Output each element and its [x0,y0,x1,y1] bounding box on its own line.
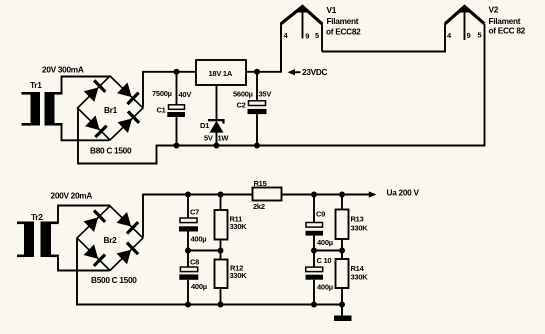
diode Br2 bottom-left [83,244,106,267]
wire R12 bottom lead [220,288,222,305]
capacitor C10 [306,267,324,280]
node C2 bottom [254,143,260,149]
wire link right pair [314,250,342,252]
wire Tr2 secondary top to Br2 AC1 [58,206,110,224]
wire Br2 DC- to ground rail [77,239,343,305]
node R11 top [218,192,224,198]
wire C2 bottom lead [256,114,258,145]
diode Br1 bottom-right [117,110,140,133]
svg-text:R13: R13 [351,215,364,224]
svg-text:Br1: Br1 [104,105,118,115]
tube V2 filament connector [445,5,485,24]
wire C8 bottom lead [187,280,189,305]
resistor R13 [336,210,349,240]
svg-text:9: 9 [305,32,309,41]
svg-text:Filament: Filament [327,16,359,26]
wire Br1 DC- return rail [78,24,485,164]
wire C8 top lead [187,251,189,268]
wire Tr1 secondary bottom to Br1 AC2 [62,123,110,140]
svg-text:of ECC 82: of ECC 82 [489,26,526,36]
node R13 top [339,192,345,198]
node link left R [218,248,224,254]
wire Br1 DC+ to regulator input [143,72,196,107]
diode Br2 top-right [116,212,139,235]
arrow Ua output [369,191,377,197]
wire R15 to output arrow [282,194,370,196]
svg-text:9: 9 [467,31,471,40]
svg-text:C7: C7 [190,207,199,216]
capacitor C8 [179,267,198,280]
wire V1 pin 5 lead [321,23,323,52]
svg-text:330K: 330K [230,222,248,231]
svg-text:400µ: 400µ [317,238,333,247]
node link right C [311,248,317,254]
capacitor C1 [167,105,185,117]
wire V1 pin 4 lead [280,23,282,72]
svg-text:D1: D1 [200,121,209,130]
wire C9 top lead [313,195,315,223]
svg-text:330K: 330K [351,273,369,282]
svg-text:Ua 200 V: Ua 200 V [387,188,420,198]
node link left C [185,248,191,254]
resistor R14 [336,259,349,288]
wire C9 bottom lead [313,236,315,251]
wire R13 top lead [341,195,343,210]
node link right R [339,248,345,254]
node C2 top [254,69,260,75]
node R12 bottom [218,302,224,308]
wire Tr1 secondary top to Br1 AC1 [62,77,111,95]
svg-text:1W: 1W [218,133,230,142]
svg-text:Tr2: Tr2 [31,212,43,222]
wire regulator output to V1 pin 4 [246,24,281,72]
transformer Tr1 [22,92,63,126]
tube V1 filament connector [281,5,322,24]
resistor R11 [215,210,228,240]
svg-text:C8: C8 [190,258,199,267]
svg-text:20V 300mA: 20V 300mA [42,65,84,75]
svg-text:400µ: 400µ [191,235,207,244]
capacitor C7 [179,218,198,232]
regulator U1 18V 1A [196,60,246,85]
svg-text:35V: 35V [259,90,272,99]
svg-text:330K: 330K [230,271,248,280]
wire R14 bottom lead [341,288,343,305]
svg-text:2k2: 2k2 [253,202,265,211]
wire R11 bottom lead [220,240,222,251]
wire C10 bottom lead [313,280,315,305]
node C7 top [185,192,191,198]
svg-text:C9: C9 [316,209,325,218]
wire R12 top lead [220,251,222,260]
svg-text:C1: C1 [157,106,166,115]
wire D1 anode lead [216,132,218,146]
svg-text:5: 5 [478,31,482,40]
diode Br2 bottom-right [116,242,139,265]
wire R11 top lead [220,195,222,211]
zener diode D1 [208,119,225,133]
bridge rectifier Br1 [78,76,144,140]
svg-text:C2: C2 [237,100,246,109]
wire V2 pin 9 [464,7,466,40]
svg-text:R15: R15 [254,179,267,188]
node C10 bottom [311,302,317,308]
capacitor C2 [248,101,267,114]
svg-text:40V: 40V [179,90,192,99]
svg-text:18V 1A: 18V 1A [209,69,233,78]
diode Br1 top-left [83,79,106,102]
svg-text:B500 C 1500: B500 C 1500 [91,275,137,285]
diode Br1 top-right [117,82,140,105]
transformer Tr2 [17,222,59,258]
node C9 top [311,192,317,198]
node C1 bottom [174,143,180,149]
bridge rectifier Br2 [77,206,143,271]
svg-text:400µ: 400µ [317,283,333,292]
wire C1 top lead [176,72,178,105]
svg-text:330K: 330K [351,224,369,233]
svg-text:5V: 5V [204,133,213,142]
svg-text:Filament: Filament [489,16,521,26]
wire ground lead [341,305,343,316]
wire link left pair [188,250,221,252]
svg-text:5: 5 [315,31,319,40]
svg-text:Tr1: Tr1 [30,80,42,90]
svg-text:B80 C 1500: B80 C 1500 [90,146,132,156]
wire V1 pin 9 [302,7,304,39]
svg-text:Br2: Br2 [104,235,118,245]
wire R14 top lead [341,251,343,260]
svg-text:C 10: C 10 [317,256,332,265]
node C8 bottom [185,302,191,308]
svg-text:23VDC: 23VDC [302,67,328,77]
svg-text:5600µ: 5600µ [233,89,253,98]
wire C2 top lead [256,72,258,101]
svg-text:of ECC82: of ECC82 [326,27,361,37]
node R14 bottom [339,302,345,308]
wire V1 pin 5 to V2 pin 4 [322,24,445,52]
capacitor C9 [306,223,324,236]
arrow 23VDC [288,69,301,75]
wire R13 bottom lead [341,239,343,251]
node C1 top [174,69,180,75]
svg-text:V2: V2 [489,5,499,15]
wire C7 top lead [187,195,189,219]
svg-text:7500µ: 7500µ [152,89,172,98]
svg-text:400µ: 400µ [191,282,207,291]
wire C10 top lead [313,251,315,268]
diode Br1 bottom-left [85,115,108,138]
wire C7 bottom lead [187,232,189,251]
wire C1 bottom lead [176,117,178,146]
wire Tr2 secondary bottom to Br2 AC2 [58,255,109,271]
ground [334,316,352,322]
svg-text:200V 20mA: 200V 20mA [51,191,93,201]
resistor R12 [215,260,228,289]
wire regulator ground pin [216,85,218,120]
resistor R15 [253,188,282,201]
diode Br2 top-left [83,209,106,232]
wire Br2 DC+ to R15 [143,195,254,238]
node D1 bottom [214,143,220,149]
svg-text:V1: V1 [327,5,337,15]
